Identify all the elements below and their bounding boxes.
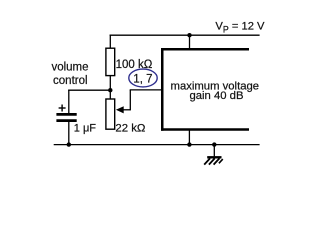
potentiometer R2 22 kOhm body [106,99,115,129]
svg-text:control: control [53,75,88,87]
potentiometer wiper arrow [116,106,124,113]
svg-text:VP = 12 V: VP = 12 V [215,21,265,35]
capacitor C1 bottom plate [56,119,76,122]
junction dot supply to amplifier [187,33,191,37]
wire: positive supply rail (top horizontal) [110,34,260,36]
wire: down to ground symbol [213,145,215,157]
svg-text:1 μF: 1 μF [74,122,97,134]
wire: supply down to amplifier box [189,35,191,48]
ground symbol hatching [204,158,210,164]
polarity plus sign of C1 [59,107,66,109]
junction dot ground symbol to rail [212,142,216,146]
amplifier U1 box top edge [161,48,249,51]
wire: R1 bottom to node [109,76,111,100]
amplifier U1 box left edge [161,48,164,131]
wire: supply down to resistor R1 [109,35,111,49]
wire: node to capacitor branch (horizontal) [68,89,110,91]
wire: capacitor top lead [68,90,70,114]
pin label ellipse 1, 7 [129,69,157,87]
capacitor C1 top plate [56,113,76,116]
svg-text:volume: volume [51,61,88,73]
wire: amplifier box bottom to ground rail [188,130,190,145]
svg-text:22 kΩ: 22 kΩ [115,122,146,134]
junction dot amplifier to ground rail [187,142,191,146]
wire: wiper to amplifier input [130,89,162,91]
wire: ground rail (bottom horizontal) [54,144,260,146]
svg-text:1, 7: 1, 7 [133,74,152,86]
node junction dot (R1 / pot / coupling wire) [108,88,112,92]
junction dot capacitor to ground rail [67,142,71,146]
resistor R1 100 kOhm body [106,48,115,75]
wire: capacitor bottom lead [68,122,70,145]
ground symbol bar [207,156,221,158]
svg-text:gain 40 dB: gain 40 dB [189,90,243,102]
amplifier U1 box bottom edge [161,128,249,131]
wire: wiper up [129,90,131,111]
